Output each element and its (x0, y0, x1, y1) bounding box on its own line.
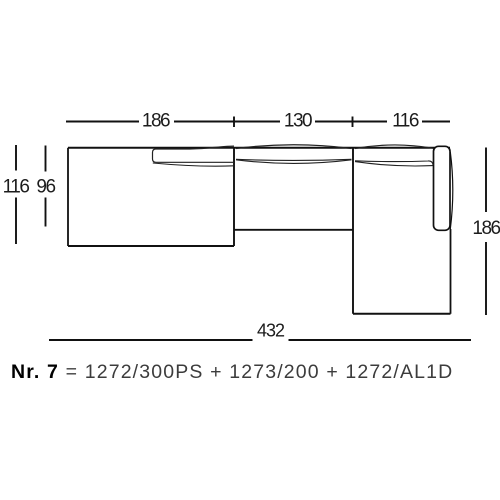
cushion 3 top arc (355, 145, 433, 149)
wire top dimension line 130 segment left (234, 121, 280, 123)
cushion 1 under crease (153, 163, 234, 166)
sofa divider 2 (352, 148, 354, 314)
wire top dimension line 186 segment left (66, 121, 139, 123)
wire right dimension line 186 upper (485, 148, 487, 213)
cushion 3 crease upper (355, 161, 433, 165)
wire top dimension line 116 segment right (422, 121, 450, 123)
cushion 1 left back cushion outline (153, 149, 235, 162)
sofa left section bottom edge (68, 245, 234, 247)
wire bottom dimension line 432 right segment (289, 339, 472, 341)
svg-text:Nr. 7 = 1272/300PS + 1273/200: Nr. 7 = 1272/300PS + 1273/200 + 1272/AL1… (11, 361, 453, 383)
node tick at 352 (352, 117, 354, 128)
sofa arm bulge arc (450, 152, 453, 229)
wire left dimension line 96 upper (45, 146, 47, 172)
svg-text:130: 130 (284, 111, 312, 132)
sofa chaise right edge (450, 229, 452, 314)
svg-text:432: 432 (257, 321, 285, 341)
wire left dimension line 96 lower (45, 198, 47, 227)
wire top dimension line 116 segment left (353, 121, 388, 123)
svg-text:116: 116 (3, 177, 30, 198)
wire top dimension line 186 segment right (174, 121, 234, 123)
node tick at 234 (233, 117, 235, 128)
sofa divider 1 (233, 148, 235, 246)
wire left dimension line 116 upper (15, 145, 17, 171)
sofa middle front edge (234, 229, 353, 231)
svg-text:116: 116 (392, 111, 419, 132)
sofa outline left edge (67, 148, 69, 246)
wire bottom dimension line 432 left segment (49, 339, 253, 341)
cushion 2 crease lower (236, 160, 352, 164)
cushion 2 crease upper (236, 159, 352, 160)
svg-text:186: 186 (472, 218, 500, 239)
cushion 3 crease lower (355, 162, 433, 166)
sofa chaise bottom edge (353, 313, 451, 315)
wire top dimension line 130 segment right (315, 121, 353, 123)
svg-text:186: 186 (142, 111, 170, 132)
cushion 2 top arc (236, 145, 352, 149)
wire right dimension line 186 lower (485, 242, 487, 315)
svg-text:96: 96 (36, 177, 55, 198)
wire left dimension line 116 lower (15, 198, 17, 245)
sofa outline top edge (68, 147, 450, 149)
armrest AL1D rounded rectangle (434, 146, 451, 230)
